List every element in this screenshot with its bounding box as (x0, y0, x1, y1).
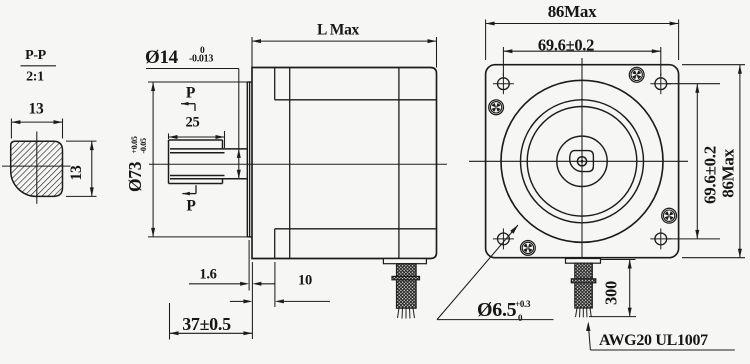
svg-text:L Max: L Max (317, 22, 360, 39)
svg-text:Ø14: Ø14 (145, 47, 179, 68)
assembly screw left (489, 100, 504, 115)
front view centerlines (469, 58, 688, 258)
lead wires exit (side view) (383, 259, 426, 309)
svg-text:0: 0 (518, 313, 523, 323)
mounting hole Ø6.5 bottom-left (493, 228, 514, 249)
svg-text:37±0.5: 37±0.5 (182, 314, 231, 334)
dimension 86Max (top) (486, 2, 679, 60)
svg-text:+0.3: +0.3 (515, 299, 531, 309)
dimension 13 (horizontal) (11, 101, 62, 139)
dimension 13 (vertical, rotated) (66, 141, 97, 196)
dimension 86Max (right, rotated) (682, 65, 745, 258)
mounting hole Ø6.5 top-left (493, 73, 514, 94)
svg-text:69.6±0.2: 69.6±0.2 (701, 146, 720, 204)
bearing hub circle (557, 136, 607, 186)
raised ring inner (527, 107, 637, 217)
assembly screw bottom (521, 241, 536, 256)
svg-text:10: 10 (298, 273, 312, 289)
assembly screw top (629, 67, 644, 82)
frayed wire ends (front view) (576, 308, 592, 317)
shaft centerline (149, 163, 447, 165)
section centerlines (2, 132, 71, 204)
pilot boss circle Ø73 (501, 80, 663, 242)
dimension 300 (wire length) (589, 260, 636, 317)
raised ring outer (521, 100, 644, 223)
svg-text:P: P (186, 85, 196, 102)
lead wires exit (front view) (566, 259, 601, 309)
label Ø14 0/-0.013 with leader (145, 46, 241, 179)
svg-text:300: 300 (602, 281, 621, 305)
svg-text:2:1: 2:1 (26, 70, 44, 85)
dimension 10 (flange) (230, 262, 330, 307)
svg-text:13: 13 (29, 101, 44, 118)
motor body (side view) (252, 68, 437, 259)
svg-text:P: P (186, 198, 196, 215)
label AWG20 UL1007 with leader (586, 322, 735, 351)
dimension L Max (252, 22, 437, 68)
dimension 69.6±0.2 (right, rotated) (667, 84, 720, 239)
dimension 25 (flat length) (169, 115, 225, 148)
section label P-P 2:1 (21, 48, 57, 85)
label Ø6.5 +0.3/0 with leader (437, 225, 554, 323)
svg-text:AWG20 UL1007: AWG20 UL1007 (599, 332, 708, 349)
svg-text:86Max: 86Max (719, 148, 738, 197)
body joint lines (275, 68, 437, 259)
frayed wire ends (side view) (398, 308, 415, 318)
svg-text:-0.05: -0.05 (139, 138, 148, 153)
dimension 69.6±0.2 (top) (503, 35, 660, 76)
svg-text:13: 13 (68, 165, 85, 180)
svg-text:P-P: P-P (25, 48, 47, 63)
svg-text:+0.05: +0.05 (130, 136, 139, 153)
svg-text:25: 25 (186, 115, 200, 131)
dimension Ø73 (vertical) (148, 82, 251, 237)
svg-text:Ø73: Ø73 (125, 161, 145, 192)
motor shaft (side view, with flats) (169, 140, 248, 184)
mounting hole Ø6.5 top-right (650, 73, 671, 94)
label Ø73 +0.05/-0.05 (rotated) (125, 136, 148, 192)
motor body front square (486, 65, 679, 258)
shaft cross-section (hatched, flats 13x13) (11, 141, 63, 196)
shaft end with flats (front) (570, 151, 594, 172)
pilot boss Ø73 (side view) (247, 82, 252, 237)
section mark P (top) (181, 85, 196, 112)
mounting hole Ø6.5 bottom-right (650, 228, 671, 249)
svg-text:86Max: 86Max (548, 2, 597, 21)
section mark P (bottom) (182, 185, 196, 214)
dimension 1.6 (boss height) (189, 240, 275, 339)
svg-text:1.6: 1.6 (199, 267, 216, 283)
shaft center hole (577, 157, 586, 166)
svg-text:Ø6.5: Ø6.5 (477, 299, 517, 321)
assembly screw right (662, 208, 677, 223)
dimension 37±0.5 (shaft length) (170, 303, 253, 340)
svg-text:-0.013: -0.013 (189, 54, 213, 65)
